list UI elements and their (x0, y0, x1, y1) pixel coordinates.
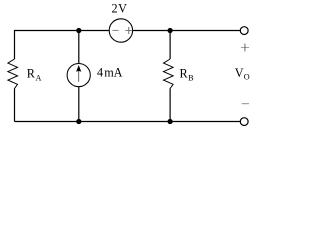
voltage source V1 circle (109, 19, 132, 42)
wire RB top stub (169, 31, 171, 60)
wire bottom rail (15, 121, 241, 123)
junction node top-right (RB / top rail) (168, 28, 173, 33)
svg-text:V: V (118, 2, 127, 16)
plus label at output (241, 47, 249, 49)
wire current source top stub (78, 31, 80, 65)
wire top-right: voltage source right terminal to output terminal (133, 30, 241, 32)
output terminal top (240, 27, 248, 35)
svg-text:R: R (27, 67, 36, 81)
svg-text:mA: mA (104, 65, 122, 79)
wire current source bottom stub (78, 86, 80, 121)
junction node top-left (current source / top rail) (76, 28, 81, 33)
junction node bottom-left (current source / bottom rail) (76, 119, 81, 124)
svg-text:A: A (36, 73, 42, 82)
wire left-bottom stub (14, 89, 16, 122)
current source arrow shaft (78, 70, 80, 82)
current source arrow head (76, 65, 81, 72)
svg-text:4: 4 (97, 65, 103, 79)
output terminal bottom (240, 118, 248, 126)
resistor RA zigzag (8, 59, 18, 89)
voltage source plus sign (125, 30, 132, 32)
resistor RB zigzag (164, 59, 174, 89)
svg-text:2: 2 (112, 2, 118, 16)
current source I1 circle (67, 64, 90, 87)
junction node bottom-right (RB / bottom rail) (168, 119, 173, 124)
svg-text:O: O (244, 73, 250, 82)
voltage source minus sign (112, 29, 118, 31)
wire top-left: left rail corner to voltage source left terminal (15, 31, 110, 60)
minus label at output (242, 103, 249, 105)
svg-text:B: B (188, 73, 194, 82)
wire RB bottom stub (169, 89, 171, 122)
svg-text:V: V (235, 66, 244, 80)
